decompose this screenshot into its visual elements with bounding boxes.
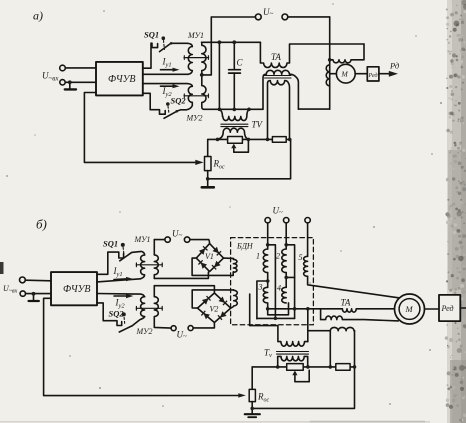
svg-text:SQ2: SQ2 xyxy=(171,96,187,106)
svg-text:Ред: Ред xyxy=(441,304,454,313)
svg-text:МУ1: МУ1 xyxy=(187,31,204,40)
svg-text:МУ2: МУ2 xyxy=(136,327,153,336)
svg-text:TA: TA xyxy=(271,52,281,62)
svg-text:SQ2: SQ2 xyxy=(109,309,125,319)
svg-text:Рд: Рд xyxy=(389,61,400,71)
svg-text:БДН: БДН xyxy=(236,242,254,251)
svg-text:SQ1: SQ1 xyxy=(103,239,118,249)
svg-text:М: М xyxy=(341,70,349,79)
svg-text:а): а) xyxy=(33,9,43,23)
svg-text:2: 2 xyxy=(276,252,280,261)
svg-text:TV: TV xyxy=(252,120,264,130)
svg-text:ФЧУВ: ФЧУВ xyxy=(108,74,135,85)
svg-text:4: 4 xyxy=(277,284,281,293)
svg-text:ФЧУВ: ФЧУВ xyxy=(63,284,90,295)
svg-text:C: C xyxy=(237,58,244,68)
svg-text:М: М xyxy=(405,304,414,314)
svg-text:Ред: Ред xyxy=(368,72,378,79)
svg-text:1: 1 xyxy=(256,252,260,261)
svg-text:МУ2: МУ2 xyxy=(186,114,203,123)
svg-text:б): б) xyxy=(36,217,47,232)
svg-text:TA: TA xyxy=(341,298,351,308)
svg-text:SQ1: SQ1 xyxy=(144,30,159,40)
svg-text:3: 3 xyxy=(258,283,263,292)
svg-text:V2: V2 xyxy=(210,305,219,314)
svg-text:V1: V1 xyxy=(205,252,214,261)
svg-text:5: 5 xyxy=(299,253,303,262)
svg-text:МУ1: МУ1 xyxy=(134,235,151,244)
